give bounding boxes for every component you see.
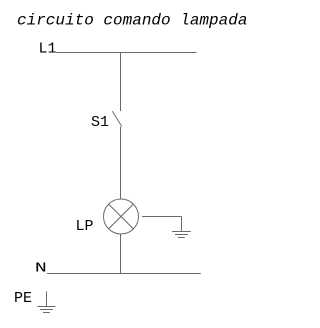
wire lamp LP to earth bbox=[142, 216, 182, 218]
wire lamp LP to N bus bbox=[120, 234, 122, 273]
wire L1 bus bbox=[56, 52, 197, 54]
lamp LP cross stroke 2 bbox=[109, 204, 134, 229]
ground PE bar 3 bbox=[43, 312, 50, 314]
wire switch S1 to lamp LP bbox=[120, 127, 122, 199]
svg-text:LP: LP bbox=[76, 218, 94, 235]
svg-text:circuito comando lampada: circuito comando lampada bbox=[17, 12, 247, 30]
switch S1 blade bbox=[112, 111, 121, 126]
lamp LP cross stroke 1 bbox=[109, 204, 134, 229]
ground (earth) symbol right bar 1 bbox=[172, 231, 191, 233]
wire earth drop bbox=[181, 217, 183, 232]
ground PE stem bbox=[46, 292, 48, 307]
ground (earth) symbol right bar 2 bbox=[175, 234, 188, 236]
svg-text:N: N bbox=[35, 261, 47, 277]
ground PE bar 1 bbox=[37, 306, 55, 308]
lamp LP circle bbox=[104, 199, 139, 234]
ground (earth) symbol right bar 3 bbox=[178, 237, 185, 239]
svg-text:L1: L1 bbox=[39, 41, 57, 58]
svg-text:S1: S1 bbox=[91, 114, 109, 131]
ground PE bar 2 bbox=[40, 309, 53, 311]
svg-text:PE: PE bbox=[14, 290, 32, 307]
wire L1 to switch S1 bbox=[120, 53, 122, 112]
wire N bus bbox=[47, 273, 201, 275]
